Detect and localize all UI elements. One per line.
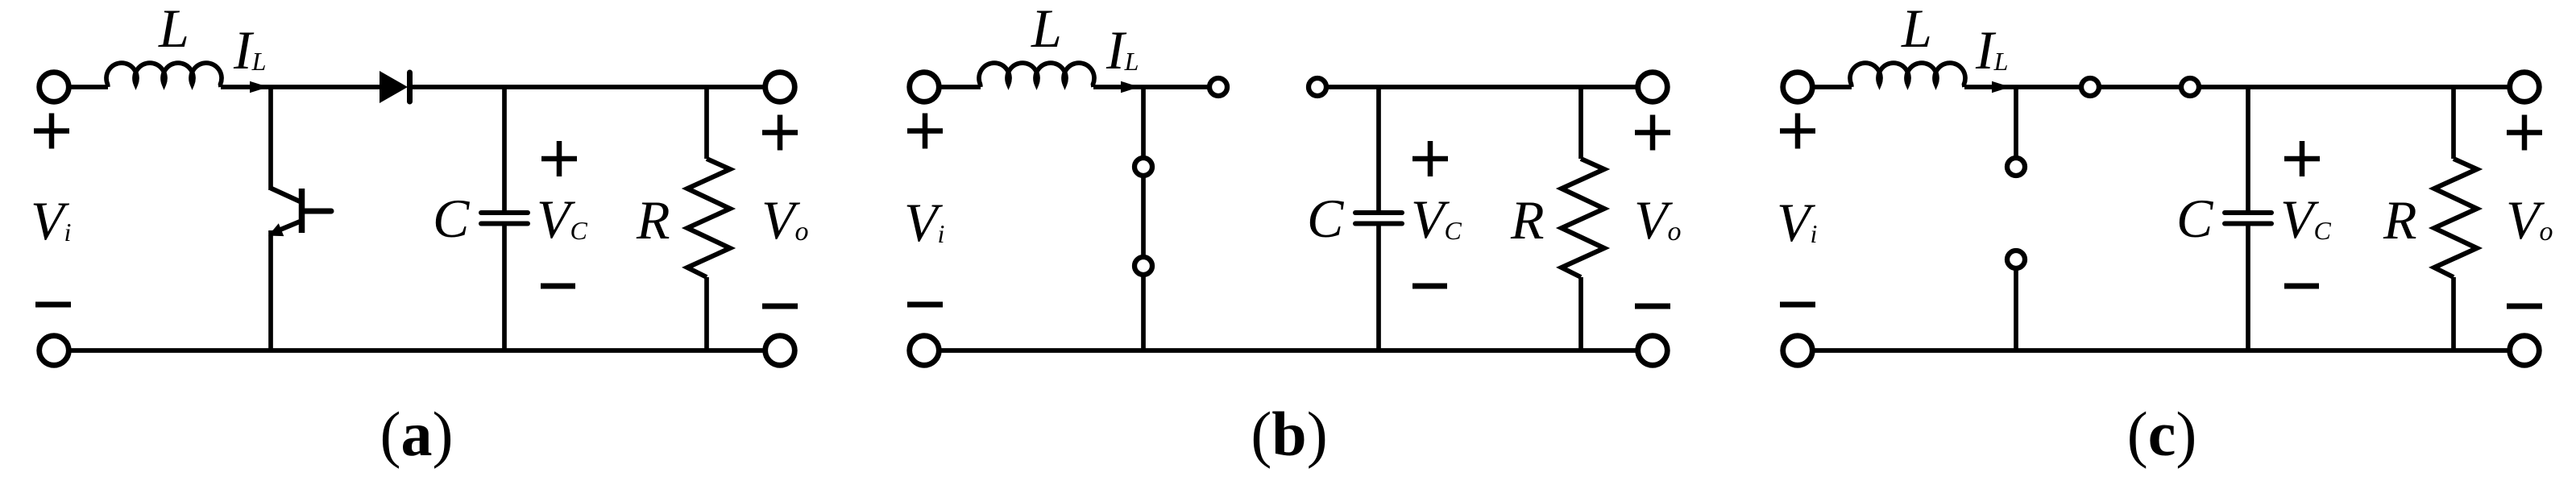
switch contact S2a (c) <box>2007 158 2025 176</box>
switch contact S2a (b) <box>1135 158 1152 176</box>
inductor L (c) <box>1850 63 1965 87</box>
wire switch to terminal (b) <box>1328 85 1637 89</box>
svg-text:L: L <box>158 0 189 59</box>
wire input top (a) <box>71 85 108 89</box>
minus sign input (b) <box>907 302 943 308</box>
terminal bottom-left (a) <box>39 336 69 366</box>
inductor L (a) <box>106 63 222 87</box>
capacitor C (b) <box>1355 87 1402 350</box>
wire input top (c) <box>1815 85 1852 89</box>
wire inductor to node (b) <box>1093 85 1208 89</box>
svg-text:R: R <box>636 189 670 251</box>
wire switch branch lower (b) <box>1141 276 1146 350</box>
switch contact S1b (b) <box>1309 78 1326 96</box>
terminal top-right (b) <box>1638 73 1668 102</box>
wire switch branch lower (c) <box>2014 269 2018 350</box>
wire switch branch upper (c) <box>2014 87 2018 157</box>
wire switch branch upper (b) <box>1141 87 1146 157</box>
wire inductor to node (c) <box>1964 85 2080 89</box>
plus sign Vo (c) <box>2507 115 2542 151</box>
minus sign input (a) <box>35 302 71 308</box>
plus sign Vc (b) <box>1412 141 1448 176</box>
transistor Q (a) <box>268 87 331 350</box>
resistor R (b) <box>1562 87 1604 350</box>
plus sign Vo (a) <box>762 115 798 151</box>
wire inductor to node (a) <box>221 85 380 89</box>
wire bottom rail (c) <box>1815 348 2509 353</box>
svg-text:(b): (b) <box>1251 399 1327 469</box>
terminal bottom-left (c) <box>1783 336 1813 366</box>
switch contact S1a (b) <box>1209 78 1227 96</box>
capacitor C (c) <box>2225 87 2271 350</box>
terminal top-right (a) <box>765 73 795 102</box>
switch contact S1b (c) <box>2181 78 2199 96</box>
capacitor C (a) <box>481 87 528 350</box>
diode D (a) <box>380 71 410 103</box>
wire switch branch mid (b) <box>1141 176 1146 256</box>
switch contact S2b (b) <box>1135 257 1152 275</box>
svg-text:L: L <box>1901 0 1932 59</box>
wire bottom rail (b) <box>941 348 1637 353</box>
minus sign Vo (a) <box>762 304 798 309</box>
svg-text:L: L <box>1031 0 1062 59</box>
svg-text:R: R <box>1510 189 1545 251</box>
svg-text:R: R <box>2383 189 2417 251</box>
resistor R (c) <box>2434 87 2477 350</box>
terminal bottom-right (c) <box>2510 336 2540 366</box>
resistor R (a) <box>687 87 730 350</box>
terminal bottom-right (a) <box>765 336 795 366</box>
terminal top-right (c) <box>2510 73 2540 102</box>
wire switch to terminal (c) <box>2201 85 2509 89</box>
wire input top (b) <box>941 85 981 89</box>
terminal top-left (b) <box>910 73 940 102</box>
svg-text:(a): (a) <box>380 399 454 469</box>
minus sign Vc (a) <box>541 284 575 289</box>
plus sign Vo (b) <box>1635 115 1670 151</box>
minus sign Vc (c) <box>2284 284 2319 289</box>
minus sign Vo (b) <box>1635 304 1670 309</box>
svg-text:C: C <box>1307 188 1344 249</box>
minus sign Vc (b) <box>1412 284 1447 289</box>
terminal top-left (c) <box>1783 73 1813 102</box>
plus sign Vc (c) <box>2284 141 2320 176</box>
arrow IL (b) <box>1121 81 1139 93</box>
terminal bottom-right (b) <box>1638 336 1668 366</box>
plus sign input (b) <box>907 114 943 149</box>
plus sign input (a) <box>34 114 69 149</box>
minus sign input (c) <box>1780 302 1815 308</box>
wire bottom rail (a) <box>71 348 765 353</box>
plus sign input (c) <box>1780 114 1815 149</box>
terminal bottom-left (b) <box>910 336 940 366</box>
plus sign Vc (a) <box>541 141 577 176</box>
svg-text:C: C <box>2176 188 2213 249</box>
inductor L (b) <box>979 63 1094 87</box>
arrow IL (a) <box>250 81 268 93</box>
minus sign Vo (c) <box>2507 304 2542 309</box>
wire between contacts (c) <box>2101 85 2180 89</box>
svg-text:(c): (c) <box>2127 399 2197 469</box>
arrow IL (c) <box>1992 81 2010 93</box>
terminal top-left (a) <box>39 73 69 102</box>
switch contact S1a (c) <box>2081 78 2099 96</box>
wire diode to terminal (a) <box>412 85 765 89</box>
switch contact S2b (c) <box>2007 251 2025 268</box>
svg-text:C: C <box>433 188 470 249</box>
